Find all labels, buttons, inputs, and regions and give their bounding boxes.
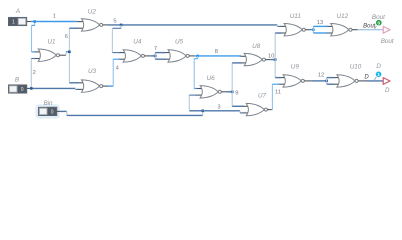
gate U10 (NOR) bbox=[332, 77, 338, 79]
svg-text:9: 9 bbox=[235, 91, 238, 97]
svg-text:Bout: Bout bbox=[381, 38, 394, 45]
probe D value 1 bbox=[376, 72, 382, 78]
svg-text:U1: U1 bbox=[47, 38, 55, 45]
net 11 : U7 out (high) bbox=[267, 109, 271, 111]
svg-text:U11: U11 bbox=[290, 13, 301, 20]
gate U7 (NOR) bbox=[242, 105, 248, 107]
net 1 : from switch A (high) bbox=[27, 21, 32, 23]
svg-text:D: D bbox=[385, 87, 390, 94]
svg-text:1: 1 bbox=[53, 14, 56, 20]
gate U1 (NOR) bbox=[34, 51, 40, 53]
svg-text:Bout: Bout bbox=[363, 24, 376, 30]
net 2 : from switch B (low) bbox=[27, 87, 32, 89]
svg-text:3: 3 bbox=[217, 104, 220, 110]
svg-text:U6: U6 bbox=[207, 75, 216, 82]
svg-text:1: 1 bbox=[377, 72, 380, 77]
gate U9 (NOR) bbox=[279, 77, 285, 79]
net 3 : from switch Bin (low) bbox=[57, 110, 60, 112]
svg-text:8: 8 bbox=[215, 49, 218, 55]
svg-text:U9: U9 bbox=[291, 63, 300, 70]
svg-text:4: 4 bbox=[116, 66, 120, 72]
gate U4 (NOR) bbox=[119, 52, 125, 54]
svg-text:A: A bbox=[15, 8, 20, 15]
svg-text:0: 0 bbox=[21, 87, 24, 93]
svg-text:Bin: Bin bbox=[43, 100, 53, 107]
gate U2 (NOR) bbox=[77, 21, 83, 23]
svg-text:U7: U7 bbox=[258, 92, 267, 99]
svg-text:10: 10 bbox=[268, 53, 274, 59]
svg-text:U4: U4 bbox=[133, 38, 142, 45]
gate U8 (NOR) bbox=[240, 55, 246, 57]
net 10 : U8 out (low) bbox=[265, 59, 270, 61]
gate U3 (NOR) bbox=[77, 82, 83, 84]
output port D triangle bbox=[383, 78, 390, 85]
net 12 : U9 out (low) bbox=[304, 80, 312, 82]
svg-text:6: 6 bbox=[65, 34, 68, 40]
svg-text:13: 13 bbox=[317, 20, 323, 26]
gate U12 (NOR) bbox=[326, 25, 332, 27]
svg-text:U8: U8 bbox=[252, 43, 261, 50]
net 6 : U1 out (low) bbox=[59, 54, 66, 56]
svg-text:U10: U10 bbox=[350, 63, 362, 70]
svg-text:D: D bbox=[376, 63, 381, 70]
svg-text:U12: U12 bbox=[337, 13, 349, 20]
net 4 : U3 out (high) bbox=[103, 85, 109, 87]
svg-text:11: 11 bbox=[275, 89, 281, 95]
input switch B bbox=[9, 85, 27, 93]
gate U11 (NOR) bbox=[280, 25, 286, 27]
svg-text:7: 7 bbox=[154, 46, 157, 52]
gate U5 (NOR) bbox=[163, 52, 169, 54]
net D : U10 out to port D bbox=[358, 80, 366, 82]
svg-text:D: D bbox=[364, 75, 369, 81]
svg-text:5: 5 bbox=[113, 18, 116, 24]
input switch Bin bbox=[35, 104, 59, 118]
net 5 : U2 out (low) bbox=[103, 24, 108, 26]
svg-text:U3: U3 bbox=[88, 68, 97, 75]
svg-text:B: B bbox=[15, 76, 19, 83]
probe pointer Bout bbox=[375, 26, 377, 29]
net 7 : U4 out (low) bbox=[144, 55, 150, 57]
svg-text:12: 12 bbox=[318, 72, 324, 78]
svg-text:Bout: Bout bbox=[372, 14, 385, 21]
svg-text:2: 2 bbox=[33, 70, 36, 76]
svg-text:0: 0 bbox=[378, 21, 381, 26]
net 13 : U11 out (high) bbox=[305, 29, 311, 31]
svg-text:0: 0 bbox=[51, 110, 54, 116]
probe pointer D bbox=[374, 77, 376, 80]
probe Bout value 0 bbox=[376, 20, 382, 26]
net Bout : U12 out to port Bout bbox=[352, 29, 358, 31]
output port Bout triangle bbox=[383, 26, 390, 33]
net 9 : U6 out (low) bbox=[221, 91, 226, 93]
gate U6 (NOR) bbox=[196, 88, 202, 90]
svg-text:U5: U5 bbox=[175, 38, 184, 45]
svg-text:U2: U2 bbox=[88, 9, 97, 16]
svg-text:1: 1 bbox=[12, 20, 15, 26]
net 8 : U5 out (high) bbox=[189, 55, 194, 57]
input switch A bbox=[9, 18, 27, 26]
